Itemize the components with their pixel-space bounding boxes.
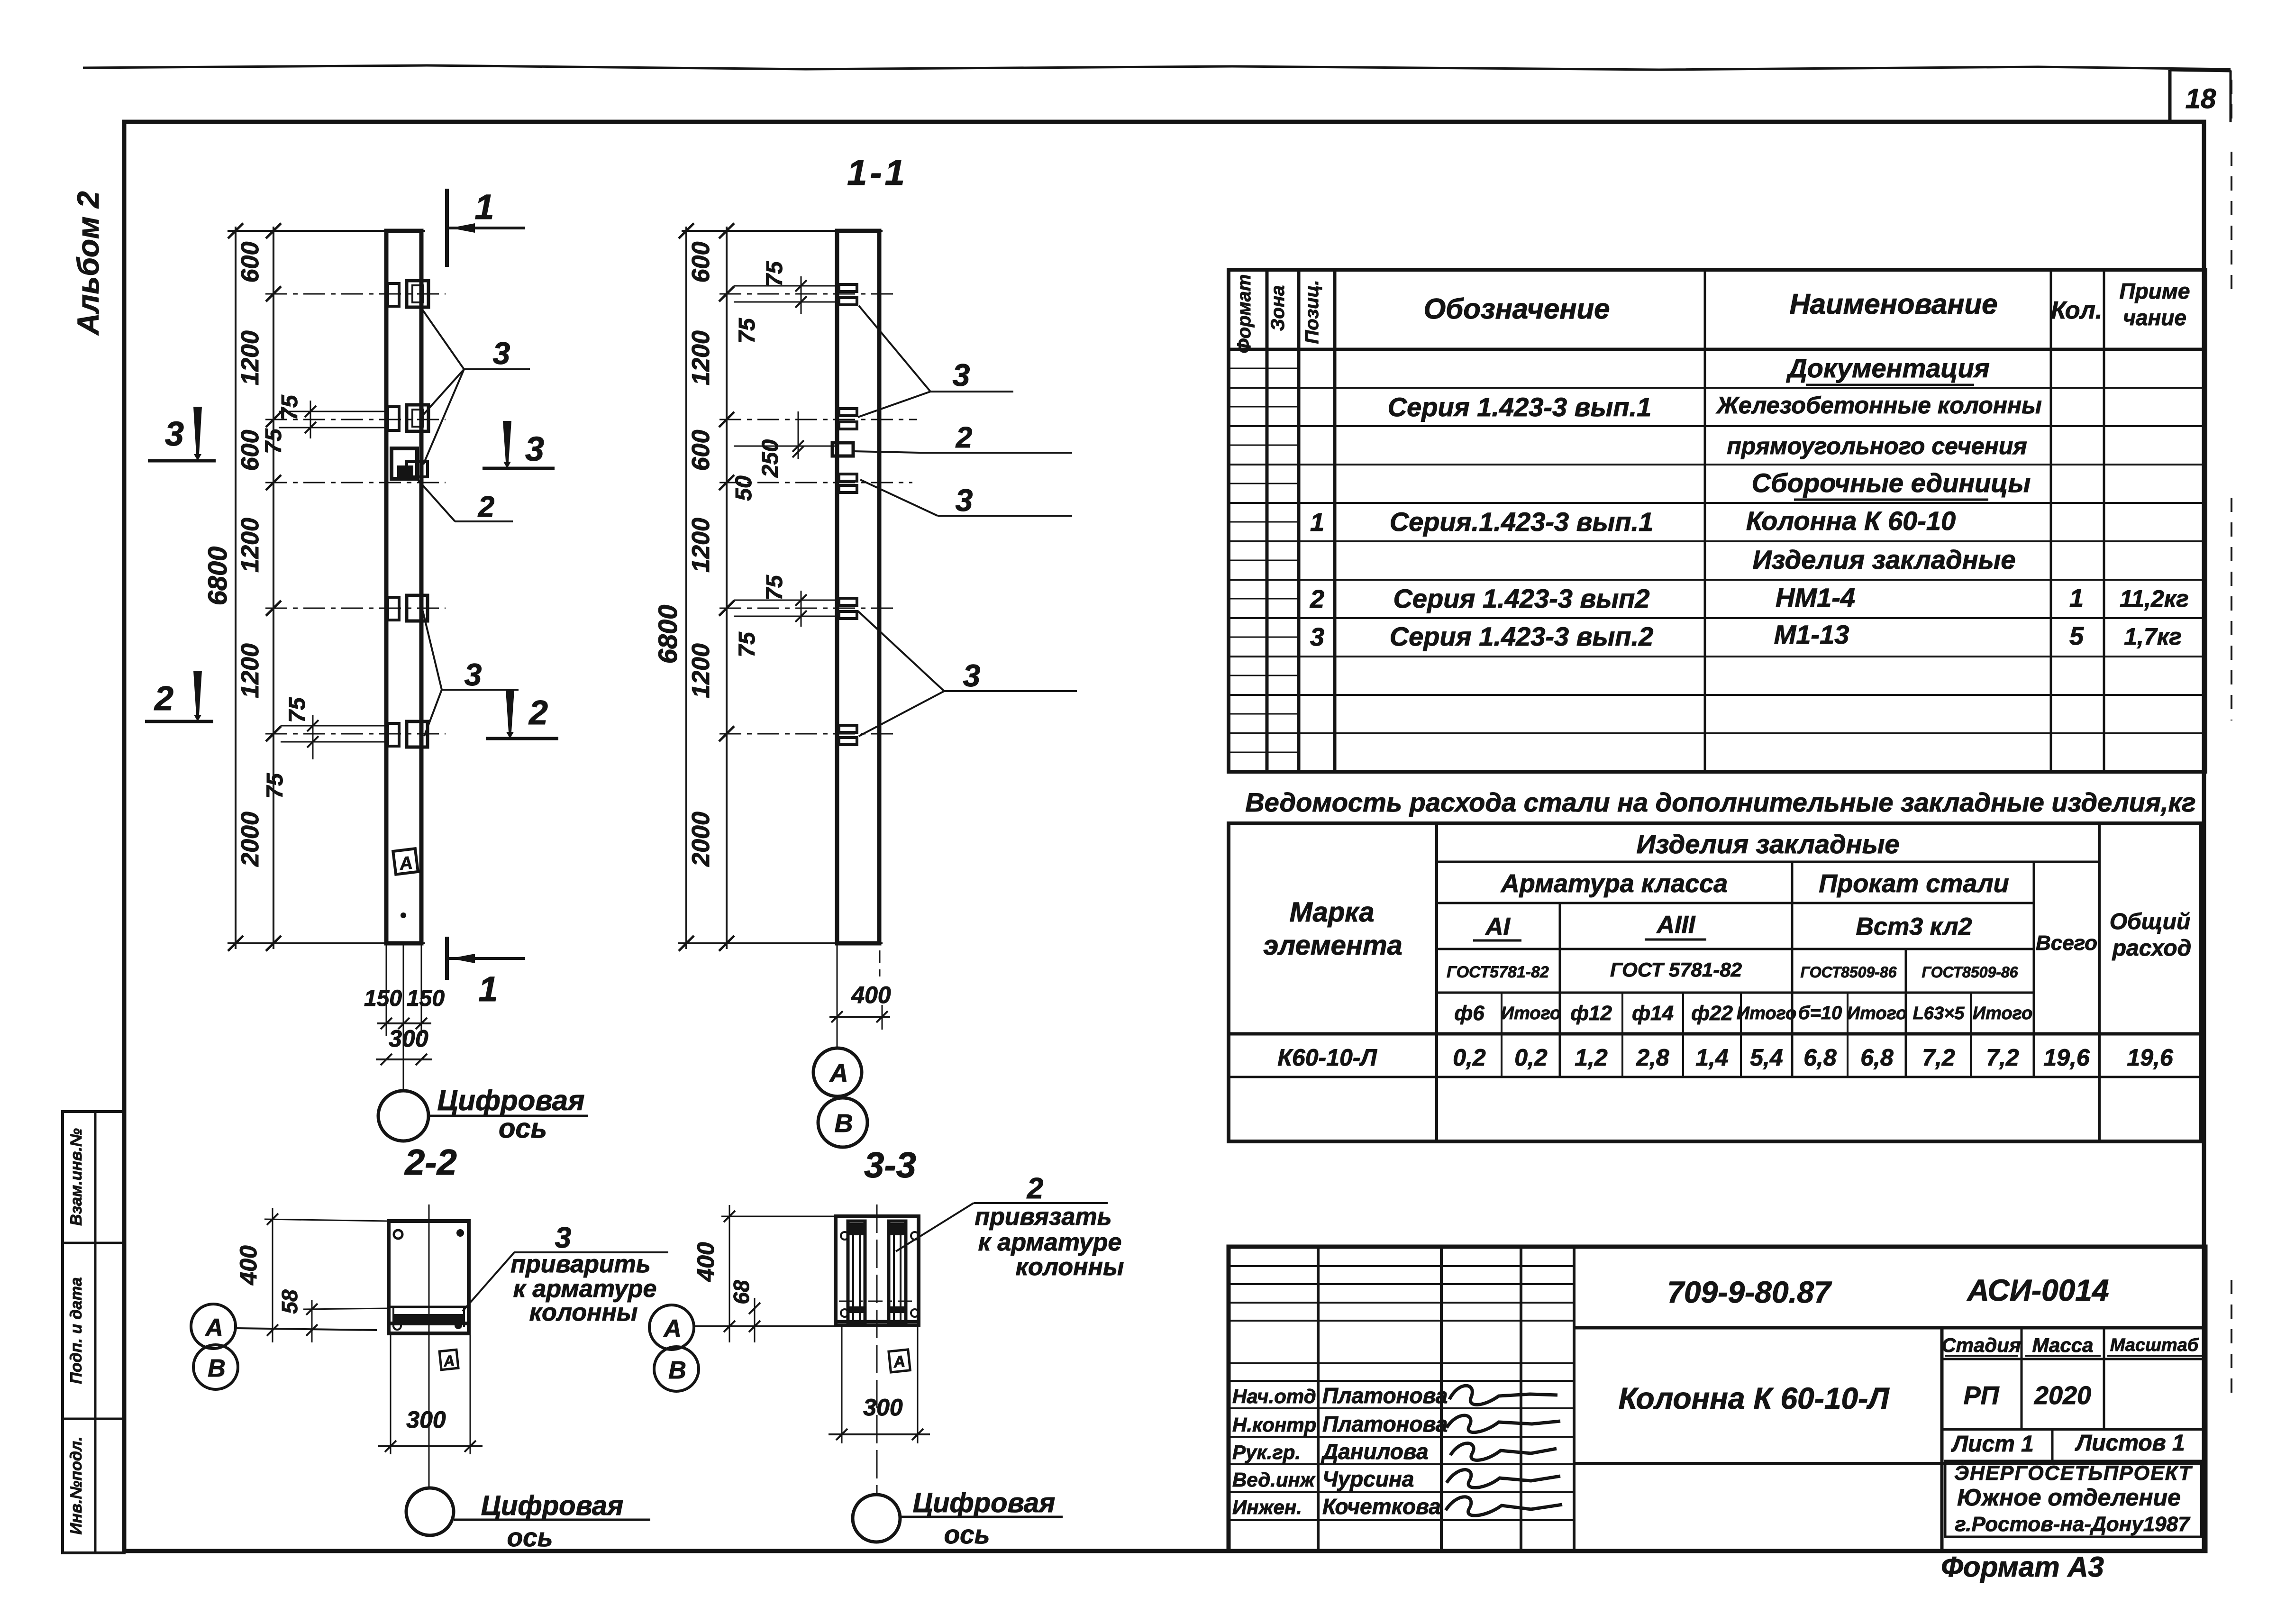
svg-text:Данилова: Данилова xyxy=(1321,1439,1429,1464)
svg-text:75: 75 xyxy=(762,261,787,287)
embeds (1-1) xyxy=(839,284,857,292)
svg-text:19,6: 19,6 xyxy=(2127,1044,2174,1071)
svg-text:1: 1 xyxy=(2069,584,2084,612)
embeds level 1548 xyxy=(388,723,399,746)
svg-text:Сборочные единицы: Сборочные единицы xyxy=(1752,468,2031,498)
svg-text:Серия.1.423-3 вып.1: Серия.1.423-3 вып.1 xyxy=(1390,507,1654,537)
embeds level 885 xyxy=(388,407,399,430)
svg-text:709-9-80.87: 709-9-80.87 xyxy=(1667,1275,1832,1309)
svg-text:элемента: элемента xyxy=(1263,930,1402,961)
svg-text:расход: расход xyxy=(2112,936,2192,961)
svg-text:7,2: 7,2 xyxy=(1922,1044,1955,1071)
dim 58 (2-2) xyxy=(311,1300,313,1342)
svg-text:Итого: Итого xyxy=(1737,1004,1796,1023)
svg-text:Наименование: Наименование xyxy=(1789,288,1997,320)
svg-text:Нач.отд: Нач.отд xyxy=(1232,1385,1316,1407)
embed channel 2-2 xyxy=(391,1306,467,1308)
svg-text:300: 300 xyxy=(406,1406,446,1433)
svg-text:Марка: Марка xyxy=(1289,897,1374,928)
svg-text:ГОСТ5781-82: ГОСТ5781-82 xyxy=(1447,963,1549,981)
svg-text:3: 3 xyxy=(165,415,184,453)
axis circles A B (2-2) xyxy=(191,1304,236,1349)
svg-text:2-2: 2-2 xyxy=(404,1142,457,1183)
svg-text:600: 600 xyxy=(237,430,264,471)
svg-text:5: 5 xyxy=(2069,622,2084,650)
rebar dots 2-2 xyxy=(394,1230,402,1239)
svg-text:колонны: колонны xyxy=(529,1299,638,1326)
svg-text:250: 250 xyxy=(758,439,783,478)
sub dims 250/50 (1-1) xyxy=(798,411,799,459)
svg-text:2000: 2000 xyxy=(237,812,264,867)
svg-text:В: В xyxy=(668,1357,686,1384)
svg-text:Вст3 кл2: Вст3 кл2 xyxy=(1856,913,1972,940)
half-row lines in narrow columns xyxy=(1229,368,1299,369)
svg-text:2000: 2000 xyxy=(687,812,715,867)
dim chain segments (1-1) xyxy=(726,227,728,949)
svg-text:привязать: привязать xyxy=(974,1203,1111,1231)
svg-text:1,2: 1,2 xyxy=(1575,1044,1608,1071)
callout 3 bottom fan (1-1) xyxy=(858,611,944,691)
dim 400 (2-2) xyxy=(272,1208,273,1342)
svg-text:Цифровая: Цифровая xyxy=(913,1487,1056,1518)
svg-text:Платонова: Платонова xyxy=(1322,1412,1448,1436)
svg-text:НМ1-4: НМ1-4 xyxy=(1776,583,1855,612)
svg-text:1200: 1200 xyxy=(237,643,264,698)
svg-text:ось: ось xyxy=(507,1523,553,1552)
centerline 2-2 xyxy=(428,1204,430,1487)
bottom dim 400 (1-1) xyxy=(837,944,838,1049)
steel table xyxy=(1229,823,2201,1141)
svg-text:150: 150 xyxy=(407,986,445,1011)
svg-text:Документация: Документация xyxy=(1786,353,1990,383)
svg-text:М1-13: М1-13 xyxy=(1774,620,1849,649)
svg-text:Чурсина: Чурсина xyxy=(1322,1467,1414,1491)
svg-text:1200: 1200 xyxy=(237,518,264,573)
section 3-3 plan square xyxy=(836,1216,919,1325)
svg-text:РП: РП xyxy=(1964,1381,2000,1410)
svg-text:400: 400 xyxy=(235,1245,262,1286)
svg-text:Прокат стали: Прокат стали xyxy=(1819,869,2009,898)
svg-text:Арматура класса: Арматура класса xyxy=(1500,869,1728,898)
svg-text:Кол.: Кол. xyxy=(2051,297,2103,324)
callout 3 lower fan xyxy=(423,611,442,690)
callout 2 (1-1) xyxy=(853,451,920,453)
svg-text:1,7кг: 1,7кг xyxy=(2124,623,2182,650)
middle column 1-1 xyxy=(837,231,879,943)
embed centerlines xyxy=(265,293,446,295)
section marker 1 bottom xyxy=(445,937,449,980)
svg-text:3: 3 xyxy=(555,1222,571,1254)
svg-text:400: 400 xyxy=(692,1242,719,1282)
svg-text:58: 58 xyxy=(277,1289,302,1314)
svg-text:600: 600 xyxy=(687,242,715,283)
svg-text:Итого: Итого xyxy=(1973,1004,2032,1023)
svg-text:ф22: ф22 xyxy=(1691,1002,1733,1025)
callout 3 weld note (2-2) xyxy=(463,1252,514,1311)
svg-text:Железобетонные колонны: Железобетонные колонны xyxy=(1715,392,2042,419)
axis circle bottom (3-3) xyxy=(853,1495,900,1542)
svg-text:3: 3 xyxy=(1310,623,1324,651)
sub dims 75/75 mid (1-1) xyxy=(801,591,802,627)
anchor mark A (2-2) xyxy=(439,1350,458,1370)
svg-text:600: 600 xyxy=(237,242,264,283)
svg-text:3: 3 xyxy=(525,430,544,468)
callout 3 upper fan xyxy=(421,308,464,369)
dim chain segments xyxy=(273,227,274,949)
svg-text:5,4: 5,4 xyxy=(1750,1044,1783,1071)
embed strips 3-3 xyxy=(848,1221,865,1323)
svg-text:Итого: Итого xyxy=(1501,1004,1561,1023)
dim chain total 6800 xyxy=(235,227,237,949)
svg-text:19,6: 19,6 xyxy=(2043,1044,2090,1071)
svg-text:Цифровая: Цифровая xyxy=(481,1490,624,1521)
svg-text:ось: ось xyxy=(944,1520,990,1549)
svg-text:600: 600 xyxy=(687,430,715,471)
svg-text:ф14: ф14 xyxy=(1632,1002,1674,1025)
svg-text:г.Ростов-на-Дону1987: г.Ростов-на-Дону1987 xyxy=(1955,1513,2191,1536)
embed HM1-4 level 1018 xyxy=(392,448,417,479)
svg-text:Всего: Всего xyxy=(2036,931,2097,955)
svg-text:75: 75 xyxy=(277,394,302,420)
svg-text:ф12: ф12 xyxy=(1570,1002,1612,1025)
svg-text:400: 400 xyxy=(851,982,891,1008)
svg-text:Серия 1.423-3 вып.2: Серия 1.423-3 вып.2 xyxy=(1390,621,1654,651)
svg-text:1: 1 xyxy=(474,187,494,227)
dim 300 (2-2) xyxy=(390,1335,392,1454)
anchor mark A in column xyxy=(393,848,418,875)
svg-text:Ведомость расхода стали на доп: Ведомость расхода стали на дополнительны… xyxy=(1245,787,2196,817)
sub dims 75/75 at level 885 xyxy=(310,401,311,438)
svg-text:1200: 1200 xyxy=(687,518,715,573)
svg-text:Серия 1.423-3 вып.1: Серия 1.423-3 вып.1 xyxy=(1388,392,1652,422)
svg-text:Формат А3: Формат А3 xyxy=(1941,1551,2104,1583)
bottom dim 300 xyxy=(376,1058,432,1060)
svg-text:ГОСТ8509-86: ГОСТ8509-86 xyxy=(1801,964,1897,981)
svg-text:Цифровая: Цифровая xyxy=(437,1085,585,1116)
svg-text:А: А xyxy=(204,1314,223,1341)
svg-text:АСИ-0014: АСИ-0014 xyxy=(1967,1273,2109,1307)
svg-text:Обозначение: Обозначение xyxy=(1423,293,1610,325)
svg-text:к арматуре: к арматуре xyxy=(978,1229,1122,1256)
svg-text:75: 75 xyxy=(735,318,760,344)
svg-text:300: 300 xyxy=(389,1025,428,1052)
svg-text:7,2: 7,2 xyxy=(1986,1044,2019,1071)
specification table xyxy=(1229,270,2205,772)
svg-text:0,2: 0,2 xyxy=(1514,1044,1548,1071)
svg-text:11,2кг: 11,2кг xyxy=(2120,585,2189,612)
bottom center dot xyxy=(401,912,406,918)
svg-text:А: А xyxy=(829,1059,848,1087)
svg-text:А: А xyxy=(892,1352,906,1371)
svg-text:ф6: ф6 xyxy=(1454,1002,1484,1025)
svg-text:Зона: Зона xyxy=(1267,285,1288,331)
svg-text:Позиц.: Позиц. xyxy=(1302,280,1322,344)
svg-text:Общий: Общий xyxy=(2110,909,2191,934)
svg-text:Альбом 2: Альбом 2 xyxy=(71,191,105,336)
embed HM1-4 (1-1) xyxy=(832,443,853,456)
svg-text:АI: АI xyxy=(1484,913,1511,940)
svg-text:Подп. и дата: Подп. и дата xyxy=(67,1277,85,1384)
dim chain total 6800 (1-1) xyxy=(685,227,687,949)
embeds level 620 xyxy=(388,283,399,306)
svg-text:50: 50 xyxy=(731,475,756,501)
svg-text:3: 3 xyxy=(956,483,973,518)
svg-text:Изделия закладные: Изделия закладные xyxy=(1752,545,2015,575)
svg-text:6,8: 6,8 xyxy=(1860,1044,1894,1071)
centerlines (1-1) xyxy=(719,293,893,295)
svg-text:75: 75 xyxy=(285,697,310,723)
svg-text:Н.контр: Н.контр xyxy=(1232,1414,1316,1436)
svg-text:75: 75 xyxy=(261,428,286,454)
svg-text:L63×5: L63×5 xyxy=(1913,1004,1965,1023)
axis circle xyxy=(378,1091,428,1141)
svg-text:Южное отделение: Южное отделение xyxy=(1957,1484,2181,1511)
svg-text:3: 3 xyxy=(464,657,482,692)
svg-text:1200: 1200 xyxy=(237,330,264,385)
svg-text:В: В xyxy=(208,1355,226,1382)
callout 3 mid (1-1) xyxy=(860,480,938,516)
svg-text:Платонова: Платонова xyxy=(1322,1383,1448,1408)
dim 400 (3-3) xyxy=(729,1205,730,1342)
svg-text:3: 3 xyxy=(493,336,510,371)
title block xyxy=(1229,1247,2205,1551)
svg-text:Стадия: Стадия xyxy=(1941,1334,2021,1356)
main frame xyxy=(124,122,2204,1551)
svg-text:Серия 1.423-3 вып2: Серия 1.423-3 вып2 xyxy=(1393,584,1649,613)
svg-text:1-1: 1-1 xyxy=(847,153,908,193)
svg-text:б=10: б=10 xyxy=(1798,1003,1842,1023)
axis circles A B (1-1) xyxy=(813,1048,862,1096)
svg-text:150: 150 xyxy=(364,986,402,1011)
centerline 3-3 xyxy=(876,1204,878,1494)
svg-text:К60-10-Л: К60-10-Л xyxy=(1277,1044,1377,1071)
bottom dims 150 150 xyxy=(386,944,387,1036)
svg-text:Итого: Итого xyxy=(1847,1004,1907,1023)
left column elevation xyxy=(386,231,421,943)
svg-text:3-3: 3-3 xyxy=(864,1145,916,1186)
svg-text:68: 68 xyxy=(729,1280,754,1305)
svg-text:0,2: 0,2 xyxy=(1453,1044,1486,1071)
svg-text:ось: ось xyxy=(499,1113,547,1144)
svg-text:2: 2 xyxy=(956,421,972,454)
svg-text:колонны: колонны xyxy=(1016,1253,1124,1281)
anchor mark A (3-3) xyxy=(889,1350,910,1372)
svg-text:Формат: Формат xyxy=(1234,274,1255,354)
svg-text:Вед.инж: Вед.инж xyxy=(1232,1469,1316,1491)
svg-text:Колонна К 60-10: Колонна К 60-10 xyxy=(1746,506,1956,536)
svg-text:Масштаб: Масштаб xyxy=(2110,1335,2199,1355)
signatures xyxy=(1449,1386,1557,1405)
svg-text:А: А xyxy=(663,1315,682,1342)
axis circle bottom (2-2) xyxy=(406,1488,454,1535)
svg-text:1: 1 xyxy=(478,969,498,1009)
svg-text:АIII: АIII xyxy=(1656,911,1696,939)
svg-text:75: 75 xyxy=(762,575,787,601)
svg-text:Кочеткова: Кочеткова xyxy=(1322,1494,1441,1519)
svg-text:Инв.№подл.: Инв.№подл. xyxy=(67,1436,85,1534)
svg-text:А: А xyxy=(398,853,413,874)
svg-text:6800: 6800 xyxy=(653,605,683,664)
svg-text:1,4: 1,4 xyxy=(1695,1044,1729,1071)
svg-text:2: 2 xyxy=(528,694,548,732)
embeds level 1283 xyxy=(388,597,399,620)
svg-text:3: 3 xyxy=(953,357,970,392)
callout 2 xyxy=(415,477,455,521)
sub dims 75/75 top (1-1) xyxy=(801,276,802,314)
svg-text:1200: 1200 xyxy=(687,643,715,698)
dim 68 (3-3) xyxy=(754,1298,756,1342)
section marker 1 top xyxy=(445,189,449,267)
svg-text:1200: 1200 xyxy=(687,330,715,385)
svg-text:3: 3 xyxy=(963,658,981,693)
svg-text:В: В xyxy=(835,1109,853,1138)
sub dims 75/75 at level 1548 xyxy=(312,715,314,759)
svg-text:Листов 1: Листов 1 xyxy=(2075,1431,2185,1456)
callout 2 tie note (3-3) xyxy=(896,1203,974,1251)
svg-text:ЭНЕРГОСЕТЬПРОЕКТ: ЭНЕРГОСЕТЬПРОЕКТ xyxy=(1954,1462,2193,1485)
left margin stamp table xyxy=(63,1112,124,1553)
svg-text:2: 2 xyxy=(478,491,494,523)
svg-text:А: А xyxy=(442,1352,455,1370)
svg-text:300: 300 xyxy=(863,1394,903,1421)
svg-text:2: 2 xyxy=(1027,1172,1043,1205)
svg-text:ГОСТ 5781-82: ГОСТ 5781-82 xyxy=(1610,958,1742,981)
section 2-2 plan square xyxy=(389,1221,469,1333)
svg-text:Рук.гр.: Рук.гр. xyxy=(1232,1441,1301,1463)
svg-text:75: 75 xyxy=(735,631,760,657)
svg-text:18: 18 xyxy=(2186,83,2216,114)
svg-text:Колонна К 60-10-Л: Колонна К 60-10-Л xyxy=(1619,1381,1890,1415)
paper right edge dashes xyxy=(2231,152,2232,294)
callout 3 top (1-1) xyxy=(859,306,930,392)
svg-text:6800: 6800 xyxy=(202,547,232,606)
svg-text:Взам.инв.№: Взам.инв.№ xyxy=(67,1128,85,1226)
svg-text:Масса: Масса xyxy=(2032,1334,2094,1356)
svg-text:Приме: Приме xyxy=(2120,279,2190,303)
svg-text:2,8: 2,8 xyxy=(1636,1044,1669,1071)
svg-text:2020: 2020 xyxy=(2034,1381,2091,1410)
svg-text:ГОСТ8509-86: ГОСТ8509-86 xyxy=(1922,964,2018,981)
axis circles A B (3-3) xyxy=(649,1305,694,1350)
svg-text:Инжен.: Инжен. xyxy=(1232,1496,1302,1518)
sheet number box xyxy=(2168,70,2172,122)
paper top edge xyxy=(83,65,2231,70)
svg-text:чание: чание xyxy=(2123,305,2186,330)
svg-text:прямоугольного сечения: прямоугольного сечения xyxy=(1727,433,2027,459)
svg-text:2: 2 xyxy=(154,680,173,718)
dim 300 (3-3) xyxy=(841,1327,843,1443)
svg-text:2: 2 xyxy=(1310,585,1324,613)
svg-text:Лист 1: Лист 1 xyxy=(1951,1432,2034,1457)
svg-text:75: 75 xyxy=(263,773,288,799)
svg-text:6,8: 6,8 xyxy=(1803,1044,1837,1071)
svg-text:приварить: приварить xyxy=(510,1250,651,1278)
svg-text:1: 1 xyxy=(1310,508,1324,537)
svg-text:Изделия закладные: Изделия закладные xyxy=(1636,829,1899,859)
